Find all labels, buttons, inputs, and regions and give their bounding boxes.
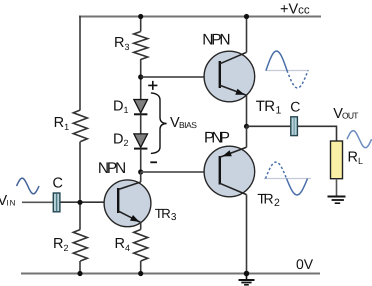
- sine icon at VIN: [17, 178, 40, 193]
- wire: TR1 base: [141, 76, 220, 78]
- svg-text:TR: TR: [155, 206, 171, 221]
- svg-text:OUT: OUT: [342, 111, 358, 121]
- wire: TR3 base (from input): [61, 201, 119, 203]
- transistor TR1 (NPN): [204, 51, 255, 102]
- svg-text:0V: 0V: [296, 256, 314, 272]
- node: center column / top rail junction: [138, 14, 143, 19]
- label + (base polarity): [148, 81, 157, 90]
- wire: RL to ground: [336, 179, 338, 197]
- wire: VIN lead: [22, 201, 53, 203]
- wire: output node to cap: [247, 125, 291, 127]
- resistor R3: [134, 32, 148, 60]
- resistor RL (load, box): [331, 141, 343, 179]
- wire: TR3 emitter to R4: [140, 223, 142, 230]
- resistor R1: [73, 110, 87, 142]
- svg-text:TR: TR: [256, 98, 275, 115]
- resistor R2: [73, 230, 87, 262]
- brace for VBIAS: [151, 93, 167, 153]
- node: R2 / bottom rail: [77, 271, 82, 276]
- svg-text:IN: IN: [6, 198, 15, 207]
- svg-text:BIAS: BIAS: [179, 120, 197, 130]
- svg-text:C: C: [53, 176, 63, 192]
- svg-text:2: 2: [274, 197, 280, 209]
- wire: D2 to TR2-base junction: [140, 149, 142, 172]
- svg-text:NPN: NPN: [98, 160, 126, 177]
- capacitor C (output): [291, 117, 298, 136]
- node: R4 / bottom rail: [138, 271, 143, 276]
- ground (below RL): [328, 197, 346, 204]
- svg-text:3: 3: [171, 212, 177, 223]
- wire: left column upper segment: [79, 16, 81, 110]
- svg-text:1: 1: [276, 105, 282, 117]
- node: TR1 collector / rail: [244, 14, 249, 19]
- wire: bottom 0V rail: [21, 273, 320, 275]
- sine icon at TR1: [265, 51, 309, 88]
- wire: TR2 emitter from output node: [246, 126, 248, 147]
- sine icon at VOUT: [347, 131, 372, 148]
- svg-text:PNP: PNP: [204, 130, 230, 147]
- node: TR1 base junction: [138, 74, 143, 79]
- transistor TR2 (PNP): [204, 146, 255, 197]
- node: input junction on left column: [77, 200, 82, 205]
- wire: TR3 collector: [140, 172, 142, 182]
- sine icon at TR2: [264, 162, 311, 195]
- node: bottom rail / TR2 collector: [244, 271, 250, 277]
- diode D1: [134, 100, 148, 115]
- wire: TR2 collector to bottom rail: [246, 195, 248, 274]
- svg-text:+Vcc: +Vcc: [280, 2, 310, 18]
- wire: R4 to bottom rail: [140, 261, 142, 274]
- wire: left column mid segment: [79, 142, 81, 230]
- diode D2: [134, 134, 148, 149]
- label - (base polarity): [150, 161, 157, 163]
- wire: center column top lead: [140, 17, 142, 32]
- node: TR2 base junction: [138, 169, 143, 174]
- ground (bottom rail): [239, 274, 255, 285]
- wire: D1 to D2: [140, 114, 142, 134]
- capacitor C (input): [53, 193, 60, 212]
- wire: TR1 collector to rail: [246, 17, 248, 53]
- node: output node: [244, 124, 249, 129]
- svg-text:C: C: [290, 98, 300, 114]
- wire: R3 to D1: [140, 59, 142, 100]
- transistor TR3 (NPN): [104, 180, 151, 227]
- wire: TR1 emitter to output node: [246, 95, 248, 126]
- wire: TR2 base: [141, 171, 220, 173]
- wire: top +Vcc rail: [79, 16, 321, 18]
- resistor R4: [134, 230, 148, 262]
- svg-text:TR: TR: [257, 191, 273, 207]
- wire: left column lower segment: [79, 261, 81, 274]
- wire: cap to RL corner: [298, 126, 337, 141]
- svg-text:NPN: NPN: [202, 32, 230, 49]
